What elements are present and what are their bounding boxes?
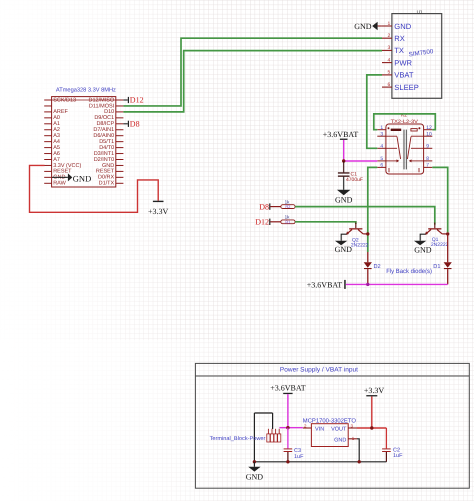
svg-text:MCP1700-3302ETO: MCP1700-3302ETO [303, 417, 356, 424]
svg-text:GND: GND [394, 22, 411, 31]
svg-text:+3.3V: +3.3V [148, 207, 169, 216]
svg-text:8: 8 [426, 156, 429, 162]
svg-text:R1: R1 [285, 219, 291, 224]
svg-text:D1: D1 [433, 264, 440, 270]
svg-text:2N2222: 2N2222 [431, 242, 449, 248]
svg-text:5: 5 [380, 156, 383, 162]
svg-text:ATmega328 3.3V 8MHz: ATmega328 3.3V 8MHz [56, 87, 116, 94]
svg-text:+3.3V: +3.3V [364, 386, 385, 395]
svg-text:6: 6 [388, 82, 391, 88]
svg-text:4: 4 [388, 57, 391, 63]
svg-text:1k: 1k [285, 199, 291, 204]
svg-text:D12: D12 [130, 96, 144, 105]
svg-text:1k: 1k [285, 215, 291, 220]
svg-text:1uF: 1uF [294, 454, 304, 460]
svg-text:GND: GND [335, 195, 353, 204]
svg-text:D1/TX: D1/TX [99, 181, 115, 187]
svg-text:VIN: VIN [315, 427, 324, 433]
svg-text:7: 7 [426, 163, 429, 169]
svg-text:VBAT: VBAT [394, 71, 414, 80]
svg-text:+3.6VBAT: +3.6VBAT [307, 280, 343, 289]
svg-text:10: 10 [426, 131, 432, 137]
svg-text:12: 12 [426, 125, 432, 131]
svg-text:VOUT: VOUT [331, 427, 347, 433]
svg-text:3: 3 [388, 45, 391, 51]
svg-text:GND: GND [73, 174, 91, 184]
svg-text:SLEEP: SLEEP [394, 83, 418, 92]
svg-text:2: 2 [388, 33, 391, 39]
svg-text:5: 5 [388, 70, 391, 76]
svg-text:PWR: PWR [394, 58, 412, 67]
svg-text:D8: D8 [130, 119, 140, 128]
svg-text:6: 6 [380, 163, 383, 169]
svg-text:4700uF: 4700uF [346, 177, 363, 183]
svg-text:2N2222: 2N2222 [351, 242, 369, 248]
svg-text:Power Supply / VBAT input: Power Supply / VBAT input [280, 366, 358, 373]
svg-text:GND: GND [335, 245, 353, 254]
svg-text:RAW: RAW [53, 181, 66, 187]
svg-text:TX: TX [394, 46, 404, 55]
svg-text:+3.6VBAT: +3.6VBAT [323, 130, 359, 139]
svg-text:GND: GND [246, 472, 264, 481]
svg-text:GND: GND [334, 437, 346, 443]
svg-text:RX: RX [394, 34, 405, 43]
svg-text:1: 1 [388, 21, 391, 27]
svg-text:TX2-L2-3V: TX2-L2-3V [391, 119, 419, 125]
svg-text:4: 4 [380, 144, 383, 150]
svg-text:D12: D12 [255, 218, 269, 227]
svg-text:D2: D2 [374, 264, 381, 270]
svg-text:GND: GND [354, 22, 372, 31]
svg-text:1: 1 [380, 125, 383, 131]
svg-text:1uF: 1uF [393, 453, 403, 459]
svg-text:U1: U1 [417, 9, 423, 14]
svg-text:+3.6VBAT: +3.6VBAT [270, 383, 306, 392]
svg-text:Fly Back diode(s): Fly Back diode(s) [386, 268, 432, 275]
svg-text:R2: R2 [285, 204, 291, 209]
svg-text:D8: D8 [259, 202, 269, 211]
svg-text:3: 3 [380, 131, 383, 137]
svg-text:Terminal_Block-Power: Terminal_Block-Power [210, 436, 266, 442]
svg-text:9: 9 [426, 144, 429, 150]
svg-text:GND: GND [414, 245, 432, 254]
